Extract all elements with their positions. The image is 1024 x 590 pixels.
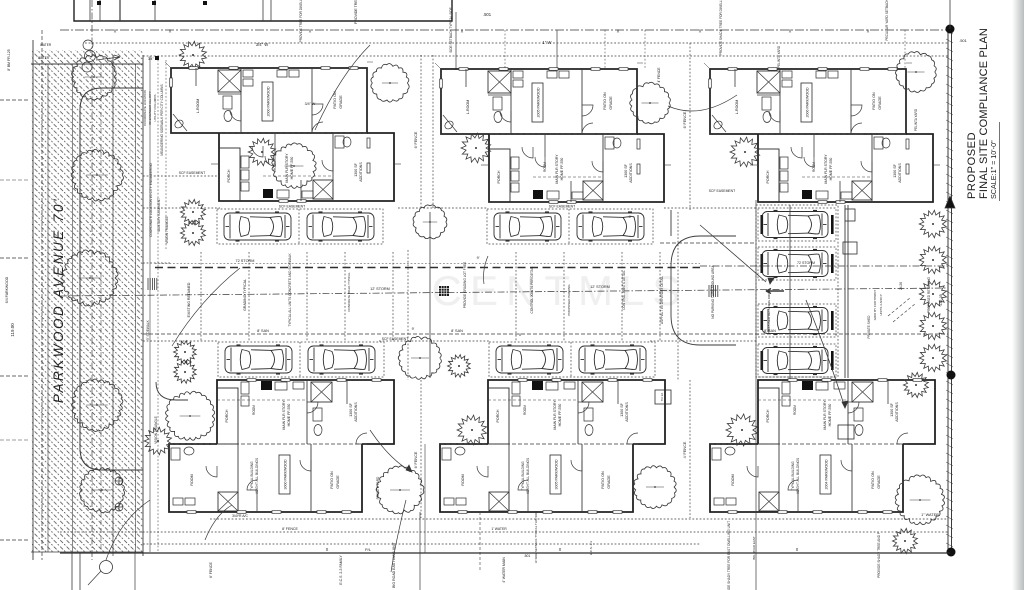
building 2005 window ticks upper [459, 68, 468, 71]
east property line double [947, 29, 949, 553]
tree courtyard bottom [398, 336, 441, 379]
building 2000 upper wing outline [171, 68, 367, 133]
black tick on water line [155, 56, 159, 60]
svg-text:4' FENCE: 4' FENCE [657, 67, 661, 83]
svg-text:6/4 PARKWOOD: 6/4 PARKWOOD [5, 276, 9, 303]
building 2000 door arc [230, 110, 241, 121]
curb island rounded outline [80, 88, 143, 470]
roof mark [152, 1, 156, 5]
building 2006 door arc [851, 105, 862, 116]
building 2004 wall [847, 380, 849, 444]
building 2006 bath window [906, 139, 909, 149]
vertical dim line x557 [556, 30, 558, 70]
building 3005 kitchen counter [512, 382, 520, 394]
svg-text:PATIO ON: PATIO ON [330, 471, 334, 489]
boundary gear tree [919, 280, 946, 307]
leader from tree B4-right [391, 500, 406, 572]
building 2006 corner dim ticks [704, 63, 710, 69]
svg-text:HEIGHT ALL BUILDINGS: HEIGHT ALL BUILDINGS [796, 458, 800, 494]
bush B4 [144, 427, 171, 454]
building 3005 door arcs lower [477, 466, 488, 477]
building 2005 door arc patio [582, 123, 593, 134]
svg-text:PELINTA YARD: PELINTA YARD [914, 108, 918, 131]
building 3000 black stove [261, 381, 272, 390]
building 2000 island fixtures [277, 190, 289, 198]
svg-text:8' SAN: 8' SAN [451, 329, 463, 333]
svg-text:PECULIAR YARD SETBACK: PECULIAR YARD SETBACK [885, 0, 889, 41]
left bottom arc [205, 505, 232, 540]
stall end bar left [761, 351, 764, 370]
svg-text:MAIN FLR STORY: MAIN FLR STORY [285, 153, 289, 183]
building 2005 bath window [637, 139, 640, 149]
svg-text:ROOM: ROOM [252, 405, 256, 415]
svg-text:SIDE SETBACK TYPICAL SIDE: SIDE SETBACK TYPICAL SIDE [449, 7, 453, 53]
building 2005 door arc [500, 111, 511, 122]
building 3005 window ticks top [518, 379, 527, 382]
building 3000 bath fixtures lower [171, 448, 180, 460]
svg-text:PROVIDE TREE FOR DWELLING: PROVIDE TREE FOR DWELLING [299, 0, 303, 42]
svg-text:CONTROL JOINTS PER DETAIL: CONTROL JOINTS PER DETAIL [530, 266, 534, 313]
vertical line x845 connector [844, 205, 846, 378]
tree right of B1 [371, 64, 409, 102]
svg-text:ROOM: ROOM [190, 474, 194, 485]
svg-text:UTILITY COLUMNS: UTILITY COLUMNS [153, 95, 157, 122]
parking pad dashed outline [489, 342, 655, 377]
easement dashed segment right of B2 [664, 207, 756, 209]
svg-text:ADDITIONS: ADDITIONS [625, 402, 629, 422]
tree near right boundary bottom [895, 475, 944, 525]
svg-text:12' STORM: 12' STORM [590, 285, 610, 289]
building 3000 bath fixtures [313, 408, 322, 421]
svg-text:TYPICAL BUILDING: TYPICAL BUILDING [521, 461, 525, 491]
svg-text:P/L: P/L [365, 547, 372, 552]
building 2006 window ticks left wall [709, 79, 712, 88]
svg-text:1300 SF: 1300 SF [620, 402, 624, 416]
building 2006 xbox lower [852, 181, 872, 200]
building 2006 wall [850, 69, 852, 134]
svg-text:MAIN FLR STORY: MAIN FLR STORY [555, 154, 559, 184]
svg-text:6' FENCE: 6' FENCE [683, 111, 687, 128]
building 2004 extra door arc [788, 480, 798, 490]
stall end bar right [831, 311, 834, 330]
bottom dashed water line [210, 518, 948, 520]
building 2005 extra door arc [535, 157, 545, 167]
svg-text:PROVIDE TREE: PROVIDE TREE [354, 0, 358, 24]
bottom fence dashed line [60, 531, 948, 533]
south property line [60, 552, 950, 554]
thick arrow no-parking [766, 289, 784, 294]
car [224, 212, 291, 241]
svg-text:VISION TRIANGLE: VISION TRIANGLE [165, 216, 169, 244]
hatched street band PARKWOOD AVENUE [31, 50, 143, 552]
building 3005 wall patio [581, 444, 583, 512]
building 2000 wall tick marks [211, 163, 219, 165]
svg-text:SCF EASEMENT: SCF EASEMENT [549, 205, 575, 209]
fence line between B2 and B3 [689, 43, 691, 210]
svg-text:4' WATER MAIN: 4' WATER MAIN [502, 557, 506, 583]
building 2005 small window ticks lower [549, 201, 558, 204]
building 2004 bath fixtures [854, 408, 863, 421]
storm line 72 bold dashed [155, 267, 700, 269]
property line ticks [946, 30, 953, 34]
car [762, 307, 828, 335]
courtyard vertical dash x408 [407, 250, 409, 380]
corner dot middle [947, 371, 956, 380]
building 2000 wall [240, 68, 242, 133]
svg-text:24.26: 24.26 [899, 282, 903, 290]
svg-text:SCF EASEMENT: SCF EASEMENT [179, 171, 205, 175]
vertical line x456 [455, 12, 457, 70]
bush courtyard bottom [448, 355, 471, 378]
parking pad dashed outline [487, 209, 653, 244]
extra gear tree bottom right [892, 528, 917, 553]
left margin tick 4 [0, 99, 28, 101]
interior line [119, 0, 121, 21]
building 2004 door arcs lower [747, 466, 758, 477]
bush B3 porch [730, 137, 760, 167]
svg-text:HOME FF-550: HOME FF-550 [558, 404, 562, 427]
street band bottom edge [31, 551, 143, 553]
building 2006 closet rects on wall [782, 71, 792, 78]
building 2006 bath fixtures [762, 97, 771, 110]
building 2006 porch [758, 149, 779, 202]
bush B6 porch [726, 414, 758, 446]
building 2005 interior dashed ceiling line [489, 133, 637, 135]
svg-text:PROVIDE SHADY TREE FOR EAST DW: PROVIDE SHADY TREE FOR EAST DWELLING UNI… [727, 521, 731, 590]
easement dashed segment bottom right [650, 340, 756, 342]
building 2006 extra door arc [804, 157, 814, 167]
svg-text:3/4" W: 3/4" W [256, 42, 268, 47]
building 2006 hall dashed [802, 176, 872, 178]
svg-text:MAIN FLR STORY: MAIN FLR STORY [824, 154, 828, 184]
svg-text:ADDITIONS: ADDITIONS [629, 163, 633, 183]
svg-text:PROVIDE GRADING LOT FREE: PROVIDE GRADING LOT FREE [463, 262, 467, 309]
svg-text:9': 9' [477, 256, 480, 260]
svg-text:GRADE: GRADE [336, 475, 340, 489]
building 2000 bath window [367, 138, 370, 148]
svg-text:TYPICAL BUILDING: TYPICAL BUILDING [791, 461, 795, 491]
building 2000 address label box [262, 82, 273, 121]
svg-text:ADDITIONS: ADDITIONS [895, 402, 899, 422]
building 3000 extra wall stub upper [346, 380, 348, 404]
svg-text:VISION TRIANGLE: VISION TRIANGLE [154, 416, 158, 444]
building 3000 porch [217, 388, 238, 444]
svg-text:8' BM FR-125: 8' BM FR-125 [7, 49, 11, 71]
building 2005 wall tick marks [481, 164, 489, 166]
sidewalk dotted line 3 [165, 60, 167, 250]
building 2000 corner dim ticks [165, 62, 171, 68]
svg-text:PORCH: PORCH [497, 170, 501, 183]
building 2004 kitchen fixtures [816, 382, 828, 390]
svg-text:PROPOSED RETAINING DRIVE: PROPOSED RETAINING DRIVE [767, 290, 771, 334]
parking stall divider [298, 209, 300, 244]
left dim ticks [143, 262, 171, 264]
svg-text:3/4YR A/C: 3/4YR A/C [232, 514, 248, 518]
building 2005 door arc [582, 105, 593, 116]
building 3000 door arcs [307, 402, 318, 413]
building 2006 lower wing wall stub [813, 134, 815, 157]
parking pad dashed outline [217, 209, 383, 244]
stall end bar left [761, 254, 764, 273]
building 2005 address label box [532, 83, 543, 122]
horizontal dashed y243 left of stalls [660, 242, 756, 244]
svg-text:L-ROOM: L-ROOM [196, 99, 200, 113]
building 3005 closet rects lower [444, 498, 454, 505]
svg-text:E.C.S. 2-3: E.C.S. 2-3 [589, 541, 593, 555]
building 3000 wall [306, 380, 308, 444]
svg-text:GRADE: GRADE [339, 95, 343, 109]
svg-text:HEIGHT ALL BUILDINGS: HEIGHT ALL BUILDINGS [526, 458, 530, 494]
building 2006 small window ticks lower [818, 201, 827, 204]
building 3005 xbox upper [582, 382, 603, 402]
boundary gear tree low [903, 372, 928, 397]
car [307, 212, 374, 241]
band inner vertical x72 [72, 64, 74, 552]
svg-text:SCF EASEMENT: SCF EASEMENT [279, 205, 305, 209]
building 2005 lower wing wall stub 2 [570, 181, 572, 202]
building 2005 wall [510, 69, 512, 134]
svg-text:132.35: 132.35 [939, 294, 943, 306]
street tree top of band [72, 55, 117, 100]
svg-text:.501: .501 [959, 38, 968, 43]
svg-text:TYPICAL ALL UNITS CONCRETE AND: TYPICAL ALL UNITS CONCRETE AND SIDEWALK [288, 252, 292, 326]
vertical line x430 through courtyard [429, 212, 431, 378]
building 2000 black stove [263, 189, 273, 198]
catch basin crosshatched square [439, 286, 449, 296]
car [762, 211, 828, 239]
svg-text:COORDINATE LOCATION W/ CITY EN: COORDINATE LOCATION W/ CITY ENGINEERING [149, 162, 153, 237]
building 3005 extra wall stub lower [527, 490, 529, 512]
utility box 2 [838, 425, 854, 439]
building 2005 closet rects on wall [513, 71, 523, 78]
svg-text:SANITARY EASEMENT: SANITARY EASEMENT [157, 198, 161, 232]
tree B4 right [376, 466, 424, 514]
building 2000 lower wing wall stub 2 [300, 180, 302, 201]
svg-text:ADDITIONS: ADDITIONS [354, 402, 358, 422]
building 2004 hall dashed [758, 399, 848, 401]
building 3005 bath fixtures [584, 408, 593, 421]
building 2000 bath fixtures [223, 96, 232, 109]
building 2004 xbox lower [759, 492, 779, 511]
building 2004 door arcs [848, 402, 859, 413]
building 2006 extra closet wall [734, 69, 736, 87]
interior line [99, 0, 101, 21]
building 2005 door arc lower [522, 147, 533, 158]
street tree [80, 468, 125, 513]
street band top edge [31, 63, 143, 65]
building 2006 corner sink [712, 115, 726, 132]
short vertical dim connectors top [604, 30, 606, 69]
band inner vertical x48 [47, 64, 49, 552]
svg-text:PATIO ON: PATIO ON [871, 471, 875, 489]
svg-text:TYPICAL BUILDING: TYPICAL BUILDING [250, 461, 254, 491]
building 3005 xbox lower [489, 492, 509, 511]
leader arc near storm [484, 256, 489, 284]
building 2000 window ticks upper [189, 67, 198, 70]
building 2000 door arc lower [252, 146, 263, 157]
building 2004 upper wing outline (bottom row) [758, 380, 935, 444]
building 3000 extra wall stub lower [256, 490, 258, 512]
easement dashed segment left [143, 175, 218, 177]
driveway curb C-shape [671, 236, 736, 345]
svg-text:PRIVATE SHED: PRIVATE SHED [867, 315, 871, 339]
building 3000 door arcs lower [206, 466, 217, 477]
svg-text:1300 SF: 1300 SF [893, 163, 897, 177]
street tree [72, 379, 123, 431]
svg-text:E.C.S. 2-3 FAMILY: E.C.S. 2-3 FAMILY [339, 555, 343, 585]
interior line [154, 0, 156, 21]
building 2004 lower wing outline [710, 444, 903, 512]
svg-text:PATIO ON: PATIO ON [872, 92, 876, 110]
small street tree [179, 41, 206, 68]
easement dashed segment mid [398, 207, 487, 209]
svg-text:CONTROL JOINTS DETAIL: CONTROL JOINTS DETAIL [622, 270, 626, 310]
building 2006 door arc patio [851, 123, 862, 134]
svg-text:MAIN FLR STORY: MAIN FLR STORY [282, 400, 286, 430]
building 3005 window ticks bottom [458, 511, 467, 514]
page edge light line [1016, 0, 1018, 590]
building 2005 window ticks left wall [440, 79, 443, 88]
tree top-middle [630, 82, 671, 123]
svg-text:PATIO ON: PATIO ON [603, 92, 607, 110]
survey cross symbol [115, 477, 123, 485]
street secondary line [41, 30, 43, 560]
svg-text:1300 SF: 1300 SF [349, 402, 353, 416]
svg-text:EXISTING RETAINED: EXISTING RETAINED [187, 282, 191, 317]
building 2004 kitchen counter [782, 382, 790, 394]
leader arrow curve [806, 300, 845, 408]
street band left boundary line [32, 40, 34, 560]
building 3005 black stove [532, 381, 543, 390]
parking stall [758, 208, 836, 241]
svg-text:12' STORM: 12' STORM [370, 287, 390, 291]
svg-text:8' SAN: 8' SAN [257, 329, 269, 333]
vertical line x756 long [755, 200, 757, 590]
svg-text:1300 SF: 1300 SF [354, 162, 358, 176]
building 2006 bath partition [757, 94, 780, 96]
svg-text:GRADE: GRADE [607, 475, 611, 489]
svg-text:BIG ROAD EAST: BIG ROAD EAST [752, 536, 756, 560]
svg-text:HEIGHT ALL BUILDINGS: HEIGHT ALL BUILDINGS [255, 458, 259, 494]
lot line between B4 and B5 [424, 444, 426, 553]
svg-text:1' WATER: 1' WATER [491, 527, 507, 531]
building 2005 door arc lower2 [592, 161, 603, 172]
svg-text:L-ROOM: L-ROOM [466, 100, 470, 114]
building 3000 xbox lower [218, 492, 238, 511]
svg-text:UNITS 4 AND P: UNITS 4 AND P [879, 294, 883, 315]
building 3005 address label box [550, 455, 561, 494]
building 2004 xbox upper [852, 382, 873, 402]
building 2006 wall lower [871, 134, 873, 202]
building 3000 extra door arc [247, 480, 257, 490]
fence line 2 [432, 55, 434, 208]
street tree [71, 149, 123, 201]
tree B4 [166, 391, 215, 440]
bush pair left [180, 199, 205, 224]
svg-text:MAIN FLR STORY: MAIN FLR STORY [823, 400, 827, 430]
building 2004 window ticks top [788, 379, 797, 382]
building 3000 kitchen fixtures [275, 382, 287, 390]
north property line with ticks [60, 29, 948, 31]
utility box right top [845, 209, 855, 221]
building 2000 wall [311, 68, 313, 133]
building 2005 lower wing wall stub [544, 134, 546, 157]
building 2000 bath cluster lower [335, 136, 344, 148]
building 2000 bath partition [218, 93, 241, 95]
svg-text:GRADE: GRADE [878, 96, 882, 110]
bush B5 porch [457, 415, 487, 445]
tree near B1 [272, 143, 316, 188]
parking stall divider [568, 209, 570, 244]
building 2005 island fixtures [547, 191, 559, 199]
building 2004 black stove [802, 381, 813, 390]
building 2006 door arc lower [791, 147, 802, 158]
building 2005 closet xbox [488, 71, 511, 93]
svg-text:MAIN FLR STORY: MAIN FLR STORY [553, 400, 557, 430]
building 2000 lower wing outline [219, 133, 394, 201]
storm line 12 sloped [60, 288, 948, 296]
building 2004 wall patio [851, 444, 853, 512]
survey cross symbol 2 [115, 503, 123, 511]
building 2000 window ticks left wall [170, 78, 173, 87]
svg-text:GRID BY FOOTPRINT: GRID BY FOOTPRINT [873, 290, 877, 321]
building 2000 hall dashed [263, 175, 333, 177]
building 3000 wall patio [310, 444, 312, 512]
left margin tick [0, 375, 28, 377]
building 3000 window ticks bottom [187, 511, 196, 514]
setback dashed line [85, 42, 948, 44]
building 2004 closet rects lower [714, 498, 724, 505]
leader curve bottom [370, 430, 412, 472]
svg-text:SCALE:1" = 10'-0": SCALE:1" = 10'-0" [989, 140, 998, 199]
svg-text:9': 9' [412, 327, 415, 331]
building 2000 lower wing wall stub [274, 133, 276, 156]
car [496, 345, 563, 374]
svg-text:WATER: WATER [40, 43, 52, 47]
vertical dotted x480 bottom [479, 512, 481, 572]
svg-text:SCF EASEMENT: SCF EASEMENT [709, 189, 735, 193]
vertical line x420 bottom [419, 512, 421, 590]
stall end bar right [831, 254, 834, 273]
fence line between B1 and B2 [420, 55, 422, 208]
building 3000 interior dashed line [169, 443, 362, 445]
building 3000 upper wing outline (bottom row) [217, 380, 394, 444]
building 2005 hall dashed [533, 176, 603, 178]
building 2006 lower wing wall stub 2 [839, 181, 841, 202]
tree top-right [896, 52, 937, 93]
building 2005 extra closet wall [465, 69, 467, 87]
left margin tick [0, 257, 28, 259]
roof mark [203, 1, 207, 5]
svg-text:2006 PARKWOOD: 2006 PARKWOOD [806, 87, 810, 117]
building 3000 xbox upper [311, 382, 332, 402]
building 3000 hall dashed [217, 399, 307, 401]
car [225, 345, 292, 374]
left margin tick [0, 539, 28, 541]
building 2005 wall [581, 69, 583, 134]
svg-text:W/ ENGINEER ALL CITY: W/ ENGINEER ALL CITY [148, 91, 152, 125]
car [762, 250, 828, 278]
bush B1 porch [248, 138, 275, 165]
stall end bar left [761, 215, 764, 234]
building 2006 window ticks upper [728, 68, 737, 71]
building 2000 door arc lower2 [322, 160, 333, 171]
building 3000 window ticks top [247, 379, 256, 382]
building 3000 wall lower-left room [237, 444, 239, 512]
svg-text:MEANDERING SIDEWALK PER CITY C: MEANDERING SIDEWALK PER CITY COLUMNS [160, 84, 164, 155]
svg-text:2004 PARKWOOD: 2004 PARKWOOD [825, 459, 829, 489]
right parking column dashed bay [756, 205, 838, 377]
